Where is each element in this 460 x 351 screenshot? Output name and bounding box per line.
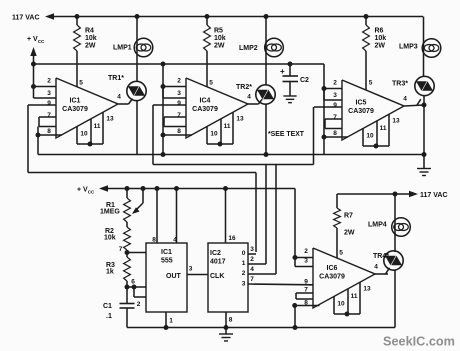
svg-text:7: 7 <box>250 276 254 283</box>
svg-text:4: 4 <box>173 236 177 243</box>
svg-text:8: 8 <box>152 236 156 243</box>
svg-text:5: 5 <box>79 79 83 86</box>
svg-text:4: 4 <box>250 266 254 273</box>
svg-text:LMP3: LMP3 <box>399 44 418 51</box>
svg-text:LMP2: LMP2 <box>239 45 258 52</box>
svg-text:2: 2 <box>333 79 337 86</box>
svg-text:10: 10 <box>366 132 374 139</box>
svg-text:IC1: IC1 <box>161 249 172 256</box>
svg-text:117 VAC: 117 VAC <box>420 192 448 199</box>
svg-text:R6: R6 <box>375 28 384 35</box>
svg-text:9: 9 <box>333 102 337 109</box>
svg-text:8: 8 <box>333 130 337 137</box>
svg-text:13: 13 <box>106 115 114 122</box>
svg-text:IC4: IC4 <box>200 98 211 105</box>
svg-text:CA3079: CA3079 <box>62 106 88 113</box>
svg-text:LMP4: LMP4 <box>368 222 387 229</box>
svg-text:1k: 1k <box>106 269 114 276</box>
svg-text:10k: 10k <box>214 35 226 42</box>
svg-text:3: 3 <box>189 265 193 272</box>
svg-text:7: 7 <box>304 287 308 294</box>
svg-text:5: 5 <box>209 79 213 86</box>
svg-text:LMP1: LMP1 <box>113 45 132 52</box>
svg-text:10: 10 <box>80 130 88 137</box>
svg-text:8: 8 <box>47 128 51 135</box>
svg-text:2W: 2W <box>344 230 355 237</box>
svg-text:8: 8 <box>304 300 308 307</box>
svg-text:2W: 2W <box>85 43 96 50</box>
svg-text:CA3079: CA3079 <box>348 108 374 115</box>
svg-text:11: 11 <box>380 125 387 132</box>
svg-text:R5: R5 <box>214 28 223 35</box>
svg-text:8: 8 <box>177 128 181 135</box>
svg-text:9: 9 <box>304 278 308 285</box>
svg-text:10: 10 <box>210 130 218 137</box>
svg-text:4: 4 <box>403 95 407 102</box>
svg-text:1: 1 <box>169 317 173 324</box>
svg-text:IC2: IC2 <box>210 250 221 257</box>
svg-text:9: 9 <box>47 100 51 107</box>
svg-text:TR4*: TR4* <box>373 253 389 260</box>
svg-text:R4: R4 <box>85 28 94 35</box>
svg-text:13: 13 <box>392 117 400 124</box>
svg-text:3: 3 <box>304 258 308 265</box>
svg-text:IC6: IC6 <box>327 265 338 272</box>
svg-text:C1: C1 <box>103 303 112 310</box>
svg-text:1: 1 <box>242 260 246 267</box>
svg-text:2: 2 <box>242 270 246 277</box>
svg-text:7: 7 <box>119 246 123 253</box>
svg-text:13: 13 <box>363 285 371 292</box>
svg-text:2: 2 <box>137 301 141 308</box>
svg-text:3: 3 <box>333 92 337 99</box>
svg-text:5: 5 <box>339 249 343 256</box>
svg-text:9: 9 <box>177 100 181 107</box>
svg-text:6: 6 <box>131 278 135 285</box>
svg-text:5: 5 <box>369 79 373 86</box>
svg-text:0: 0 <box>242 250 246 257</box>
svg-text:555: 555 <box>161 258 173 265</box>
svg-text:IC5: IC5 <box>356 100 367 107</box>
svg-text:TR3*: TR3* <box>392 81 408 88</box>
svg-text:11: 11 <box>224 123 231 130</box>
svg-text:2: 2 <box>177 77 181 84</box>
svg-text:11: 11 <box>94 123 101 130</box>
svg-text:7: 7 <box>47 112 51 119</box>
svg-text:CA3079: CA3079 <box>319 274 345 281</box>
svg-text:R7: R7 <box>344 213 353 220</box>
svg-text:2: 2 <box>250 256 254 263</box>
svg-text:16: 16 <box>228 235 236 242</box>
svg-text:CA3079: CA3079 <box>192 106 218 113</box>
svg-text:4: 4 <box>117 93 121 100</box>
svg-text:2: 2 <box>304 248 308 255</box>
svg-text:10k: 10k <box>104 235 116 242</box>
svg-text:117 VAC: 117 VAC <box>12 15 40 22</box>
svg-text:.1: .1 <box>106 313 112 320</box>
svg-text:3: 3 <box>177 90 181 97</box>
svg-text:3: 3 <box>250 246 254 253</box>
svg-text:+: + <box>280 67 285 76</box>
svg-text:2: 2 <box>47 77 51 84</box>
svg-text:2W: 2W <box>375 43 386 50</box>
svg-text:TR2*: TR2* <box>236 84 252 91</box>
svg-text:3: 3 <box>242 280 246 287</box>
svg-text:4: 4 <box>374 263 378 270</box>
svg-text:*SEE TEXT: *SEE TEXT <box>268 131 305 138</box>
svg-text:10k: 10k <box>85 35 97 42</box>
svg-text:11: 11 <box>351 293 358 300</box>
svg-text:4017: 4017 <box>210 259 226 266</box>
svg-text:7: 7 <box>177 112 181 119</box>
svg-text:C2: C2 <box>300 77 309 84</box>
svg-text:3: 3 <box>47 90 51 97</box>
svg-text:2W: 2W <box>214 43 225 50</box>
svg-text:IC1: IC1 <box>70 98 81 105</box>
svg-text:SeekIC.com: SeekIC.com <box>383 335 455 349</box>
svg-text:1MEG: 1MEG <box>100 209 120 216</box>
svg-text:OUT: OUT <box>166 273 182 280</box>
svg-text:8: 8 <box>229 316 233 323</box>
svg-text:TR1*: TR1* <box>108 75 124 82</box>
svg-text:CLK: CLK <box>210 273 224 280</box>
svg-text:10: 10 <box>337 300 345 307</box>
svg-text:4: 4 <box>247 93 251 100</box>
svg-text:10k: 10k <box>375 35 387 42</box>
svg-text:7: 7 <box>333 114 337 121</box>
svg-text:13: 13 <box>236 115 244 122</box>
